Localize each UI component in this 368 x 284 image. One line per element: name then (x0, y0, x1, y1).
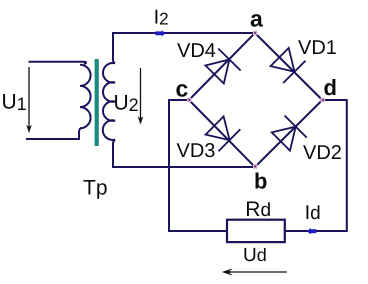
svg-text:a: a (250, 6, 263, 32)
wire bridge edge b-d (255, 100, 322, 167)
wire bridge edge a-d (255, 33, 322, 100)
diode VD1 (271, 48, 306, 83)
wire node c to load rail (169, 100, 227, 231)
svg-text:I2: I2 (154, 7, 169, 29)
diode VD4 (205, 49, 240, 84)
svg-text:c: c (176, 75, 189, 101)
voltage arrow U2 (138, 68, 142, 124)
current arrow I2 (155, 30, 165, 36)
svg-text:Id: Id (305, 202, 321, 224)
svg-text:U2: U2 (114, 91, 139, 115)
svg-text:b: b (254, 169, 267, 194)
diode VD3 (206, 116, 241, 151)
node b (253, 164, 258, 169)
wire primary bottom (26, 128, 80, 139)
svg-text:U1: U1 (2, 91, 27, 115)
resistor Rd (227, 220, 285, 242)
svg-text:Tp: Tp (83, 176, 108, 199)
wire primary top (29, 62, 87, 64)
diode VD2 (272, 116, 307, 151)
transformer core (95, 59, 99, 146)
current arrow Id (307, 228, 317, 234)
voltage arrow U1 (27, 67, 31, 132)
svg-text:VD2: VD2 (303, 142, 342, 164)
node c (187, 98, 192, 103)
node a (253, 31, 258, 36)
wire secondary top to node a (113, 33, 255, 63)
svg-text:Rd: Rd (245, 198, 271, 221)
svg-text:VD1: VD1 (298, 37, 337, 59)
secondary winding Tp right (103, 63, 115, 140)
primary winding Tp left (80, 65, 91, 129)
svg-text:VD4: VD4 (177, 40, 216, 62)
svg-text:VD3: VD3 (177, 140, 216, 162)
wire secondary bottom to node b (113, 140, 255, 167)
voltage arrow Ud (224, 269, 287, 275)
svg-text:Ud: Ud (243, 245, 267, 266)
svg-text:d: d (324, 75, 337, 100)
wire node d to right rail (285, 100, 347, 231)
node d (321, 98, 326, 103)
wire bridge edge a-c (189, 33, 255, 100)
wire bridge edge c-b (189, 100, 255, 167)
